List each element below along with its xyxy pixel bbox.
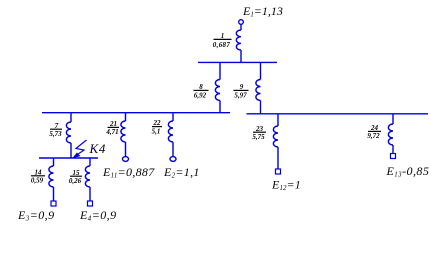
svg-text:4,71: 4,71 bbox=[105, 128, 118, 136]
wire bbox=[277, 147, 279, 169]
svg-text:5,1: 5,1 bbox=[152, 127, 161, 135]
svg-text:24: 24 bbox=[370, 124, 379, 132]
inductor X22 bbox=[168, 121, 173, 142]
wire bbox=[240, 50, 242, 62]
wire bbox=[219, 62, 221, 79]
wire bbox=[125, 113, 127, 121]
inductor X24 bbox=[388, 124, 393, 145]
wire bbox=[70, 143, 72, 158]
inductor X9 bbox=[256, 80, 261, 101]
fraction bar X21 bbox=[108, 126, 120, 128]
wire bbox=[89, 187, 91, 201]
fraction bar X14 bbox=[31, 175, 45, 177]
fraction bar X7 bbox=[50, 128, 62, 130]
svg-text:E11=0,887: E11=0,887 bbox=[102, 165, 155, 180]
wire bbox=[219, 101, 221, 113]
terminal square E3 bbox=[51, 201, 56, 206]
wire bbox=[53, 187, 55, 201]
bus right bbox=[247, 113, 429, 115]
svg-text:14: 14 bbox=[35, 168, 43, 176]
wire bbox=[260, 101, 262, 114]
wire bbox=[260, 62, 262, 79]
wire bbox=[392, 145, 394, 154]
svg-text:K4: K4 bbox=[89, 141, 107, 156]
svg-text:8: 8 bbox=[199, 83, 203, 91]
svg-text:E13-0,85: E13-0,85 bbox=[386, 164, 430, 179]
svg-text:23: 23 bbox=[255, 125, 264, 133]
terminal square E12 bbox=[276, 169, 281, 174]
fraction bar X9 bbox=[234, 89, 249, 91]
inductor X23 bbox=[273, 126, 278, 147]
fraction bar X1 bbox=[214, 38, 232, 40]
svg-text:E12=1: E12=1 bbox=[271, 178, 301, 193]
fraction bar X23 bbox=[253, 131, 266, 133]
svg-text:9: 9 bbox=[240, 83, 244, 91]
bus top bbox=[198, 61, 277, 63]
wire bbox=[392, 114, 394, 124]
inductor X21 bbox=[121, 121, 126, 142]
svg-text:6,92: 6,92 bbox=[194, 91, 207, 99]
inductor X7 bbox=[66, 122, 71, 143]
svg-text:9,72: 9,72 bbox=[367, 132, 380, 140]
fraction bar X15 bbox=[70, 175, 82, 177]
svg-text:5,73: 5,73 bbox=[49, 130, 62, 138]
svg-text:7: 7 bbox=[55, 122, 59, 130]
svg-text:5,75: 5,75 bbox=[252, 133, 265, 141]
inductor X8 bbox=[215, 80, 220, 101]
wire bbox=[172, 142, 174, 156]
terminal circle E2 bbox=[170, 157, 176, 162]
svg-text:0,687: 0,687 bbox=[213, 41, 231, 49]
bus left bbox=[42, 112, 230, 114]
fraction bar X22 bbox=[152, 126, 162, 128]
wire bbox=[125, 142, 127, 156]
terminal square E13 bbox=[391, 154, 396, 159]
fault K4 bolt bbox=[76, 140, 87, 155]
inductor X15 bbox=[85, 166, 90, 187]
svg-text:E1=1,13: E1=1,13 bbox=[242, 4, 283, 19]
svg-text:21: 21 bbox=[109, 120, 117, 128]
svg-text:0,26: 0,26 bbox=[69, 177, 82, 185]
wire bbox=[240, 25, 242, 30]
fraction bar X8 bbox=[194, 89, 209, 91]
svg-text:22: 22 bbox=[153, 119, 162, 127]
bus lower-left bbox=[39, 157, 98, 159]
wire bbox=[277, 114, 279, 126]
svg-text:E2=1,1: E2=1,1 bbox=[163, 165, 200, 180]
svg-text:E4=0,9: E4=0,9 bbox=[79, 208, 117, 223]
wire bbox=[89, 158, 91, 166]
terminal circle E11 bbox=[123, 157, 129, 162]
terminal square E4 bbox=[88, 201, 93, 206]
inductor X1 bbox=[236, 30, 241, 50]
svg-text:5,97: 5,97 bbox=[234, 91, 247, 99]
svg-text:1: 1 bbox=[221, 32, 225, 40]
inductor X14 bbox=[49, 166, 54, 187]
wire bbox=[70, 113, 72, 122]
fraction bar X24 bbox=[368, 130, 381, 132]
wire bbox=[53, 158, 55, 166]
svg-text:15: 15 bbox=[73, 169, 81, 177]
svg-text:E3=0,9: E3=0,9 bbox=[17, 208, 55, 223]
wire bbox=[172, 113, 174, 121]
terminal circle source E1 bbox=[239, 20, 244, 25]
svg-text:0,59: 0,59 bbox=[31, 177, 44, 185]
